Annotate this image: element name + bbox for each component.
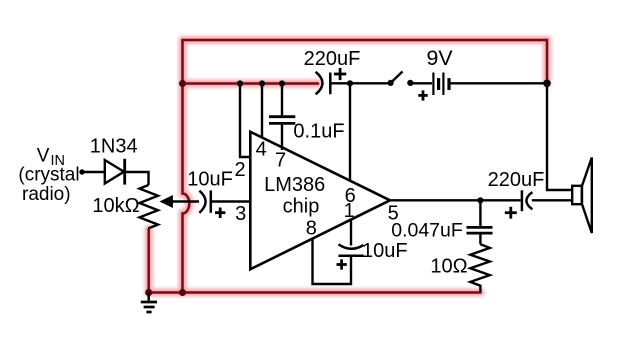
- svg-text:V: V: [37, 146, 50, 167]
- svg-text:220uF: 220uF: [304, 48, 361, 70]
- svg-text:radio): radio): [22, 184, 71, 205]
- svg-text:4: 4: [256, 139, 267, 161]
- svg-text:10Ω: 10Ω: [430, 256, 467, 278]
- svg-text:1: 1: [344, 200, 355, 222]
- svg-text:8: 8: [306, 217, 317, 239]
- svg-text:0.1uF: 0.1uF: [293, 121, 344, 143]
- svg-text:(crystal: (crystal: [18, 165, 79, 186]
- svg-text:10uF: 10uF: [362, 240, 408, 262]
- svg-text:5: 5: [388, 203, 399, 225]
- svg-text:7: 7: [275, 150, 286, 172]
- svg-text:10kΩ: 10kΩ: [92, 195, 139, 217]
- svg-text:2: 2: [235, 159, 246, 181]
- svg-text:10uF: 10uF: [187, 168, 233, 190]
- svg-text:chip: chip: [283, 195, 320, 217]
- svg-text:9V: 9V: [426, 46, 453, 70]
- svg-text:220uF: 220uF: [488, 169, 545, 191]
- svg-text:3: 3: [235, 203, 246, 225]
- svg-text:0.047uF: 0.047uF: [391, 220, 463, 242]
- svg-text:LM386: LM386: [264, 174, 325, 196]
- svg-text:1N34: 1N34: [90, 136, 138, 158]
